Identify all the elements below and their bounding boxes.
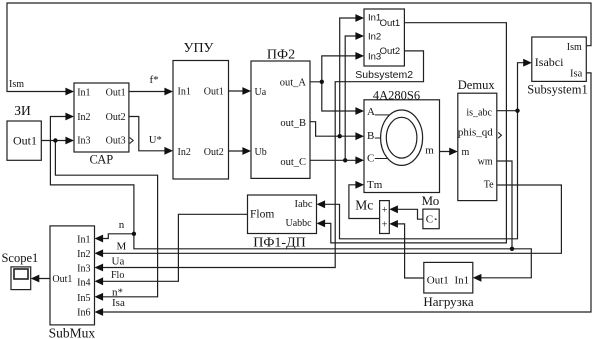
svg-text:Ism: Ism [567,42,582,53]
svg-text:n: n [119,219,125,231]
svg-text:f*: f* [150,74,159,86]
svg-text:Out2: Out2 [204,147,224,158]
svg-text:+: + [382,205,388,216]
svg-text:Scope1: Scope1 [1,251,38,265]
svg-text:out_B: out_B [280,118,306,129]
svg-text:In2: In2 [178,147,191,158]
svg-text:+: + [382,220,388,231]
svg-text:Мо: Мо [422,193,440,208]
svg-text:In4: In4 [77,277,90,288]
svg-text:In1: In1 [455,274,470,286]
svg-text:m: m [462,147,470,158]
svg-text:In2: In2 [77,249,90,260]
svg-text:Нагрузка: Нагрузка [423,294,474,309]
svg-text:Ub: Ub [255,147,267,158]
svg-text:wm: wm [478,156,493,167]
svg-text:Out2: Out2 [380,46,401,57]
svg-text:C: C [426,213,433,225]
svg-text:C: C [367,152,374,164]
svg-text:Ua: Ua [112,255,125,267]
svg-text:B: B [367,130,374,142]
svg-text:САР: САР [90,152,114,166]
svg-text:УПУ: УПУ [184,41,214,56]
svg-text:In3: In3 [77,136,90,147]
svg-text:M: M [117,240,127,252]
svg-text:Out1: Out1 [13,134,37,148]
svg-text:SubMux: SubMux [49,326,96,339]
svg-text:Subsystem1: Subsystem1 [527,83,587,97]
svg-text:Uabbc: Uabbc [285,218,312,229]
svg-text:ПФ2: ПФ2 [267,48,295,63]
svg-text:Out1: Out1 [106,88,126,99]
svg-text:A: A [367,106,375,118]
svg-text:In3: In3 [77,264,90,275]
svg-text:Subsystem2: Subsystem2 [355,69,413,81]
svg-text:ПФ1-ДП: ПФ1-ДП [253,235,306,250]
svg-text:out_A: out_A [280,78,307,89]
svg-text:Isabci: Isabci [535,55,564,69]
svg-text:Ua: Ua [255,87,267,98]
svg-text:Flo: Flo [111,270,124,281]
svg-text:Ism: Ism [9,79,24,90]
svg-text:In5: In5 [77,293,90,304]
svg-text:Flom: Flom [250,209,274,221]
svg-text:Tm: Tm [367,179,383,191]
svg-text:Out1: Out1 [52,274,72,285]
svg-text:is_abc: is_abc [466,107,492,118]
svg-text:Out1: Out1 [427,274,449,286]
svg-text:Out1: Out1 [380,18,401,29]
svg-text:In1: In1 [77,88,90,99]
svg-text:In2: In2 [368,32,381,43]
svg-text:Out2: Out2 [106,112,126,123]
svg-text:out_C: out_C [280,157,306,168]
svg-text:In2: In2 [77,112,90,123]
svg-text:Out1: Out1 [204,87,224,98]
svg-text:In1: In1 [178,87,191,98]
svg-text:Isa: Isa [570,68,583,79]
svg-text:4A280S6: 4A280S6 [373,88,420,102]
svg-text:Te: Te [484,180,494,191]
svg-text:m: m [425,144,434,156]
svg-text:Мс: Мс [355,197,373,212]
svg-text:U*: U* [149,135,162,146]
svg-text:Out3: Out3 [106,136,126,147]
svg-text:Demux: Demux [458,78,496,92]
svg-text:Iabc: Iabc [295,199,313,210]
svg-text:In1: In1 [77,234,90,245]
svg-text:phis_qd: phis_qd [458,126,493,138]
svg-text:Isa: Isa [112,297,125,309]
svg-text:ЗИ: ЗИ [14,103,31,118]
svg-text:In6: In6 [77,308,90,319]
